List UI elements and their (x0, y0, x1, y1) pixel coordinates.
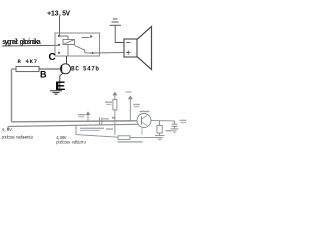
Q2 emitter lead down (141, 127, 143, 135)
ground above speaker (110, 24, 122, 26)
wire B horizontal (8, 124, 138, 126)
speaker LS1 (124, 39, 137, 57)
svg-text:4,5V: 4,5V (2, 127, 13, 133)
ground under R3 (155, 135, 165, 137)
svg-text:BC: BC (71, 65, 79, 72)
capacitor C2 right (174, 121, 176, 124)
relay fixed contact (82, 37, 90, 39)
transistor Q1 BC547b (61, 64, 71, 74)
wire speaker-signal input (2, 44, 59, 47)
R2 bottom lead down to row3 (114, 110, 116, 135)
resistor R3 vertical right (159, 121, 161, 126)
svg-text:E: E (55, 81, 66, 93)
svg-text:547b: 547b (83, 65, 99, 72)
tiny label above Q2 (140, 111, 150, 113)
emitter wire (60, 73, 64, 91)
tiny label right of R3 (166, 130, 173, 131)
collector wire (66, 56, 68, 64)
wire resistor to base (39, 68, 62, 70)
tiny label left of arrow (78, 114, 86, 115)
ground under C2 (171, 128, 179, 130)
svg-text:B: B (40, 70, 47, 80)
tiny gray text row mid (80, 128, 104, 129)
wire relay to speaker (93, 52, 125, 55)
relay K1 box (55, 33, 100, 56)
supply arrow 3 (129, 99, 131, 121)
transistor Q2 circle (137, 114, 151, 128)
wire supply to relay (59, 17, 61, 36)
svg-text:C: C (49, 52, 56, 63)
supply arrow above R2 (114, 95, 116, 99)
resistor R1 box (16, 66, 39, 71)
junction blob near R2 lead (112, 117, 115, 119)
wire B drop to row3 (76, 125, 118, 137)
series capacitor on wire A (99, 117, 101, 125)
svg-text:4K7: 4K7 (26, 58, 38, 65)
ground under emitter (50, 90, 62, 92)
relay switch arm (75, 46, 93, 54)
wire B stub (7, 127, 9, 131)
speaker plus mark (126, 52, 131, 54)
supply arrow on wire A (87, 115, 89, 122)
tiny label left of R2 (105, 102, 112, 103)
wire left to resistor (12, 68, 17, 70)
tiny label right of arrow 3 (133, 104, 140, 105)
speaker minus mark (126, 42, 131, 44)
svg-text:+13,5V: +13,5V (47, 11, 71, 19)
svg-text:podczas nadawania: podczas nadawania (2, 135, 34, 140)
tiny label right of C2 (180, 120, 187, 121)
wire A horizontal (12, 121, 138, 122)
resistor R2 vertical (113, 99, 117, 110)
tiny label under R4 (118, 141, 143, 142)
relay coil wiring (59, 36, 68, 40)
row3 wire right of R4 (130, 137, 162, 139)
wire A right of Q2 (151, 120, 175, 122)
resistor R4 on row3 (118, 136, 130, 140)
relay coil (63, 40, 75, 45)
svg-text:podczas odbioru: podczas odbioru (56, 140, 86, 145)
relay pin dots (58, 35, 60, 37)
tiny label above cap (103, 118, 110, 119)
wire long left vertical (11, 69, 13, 122)
wire speaker to ground (115, 26, 124, 43)
